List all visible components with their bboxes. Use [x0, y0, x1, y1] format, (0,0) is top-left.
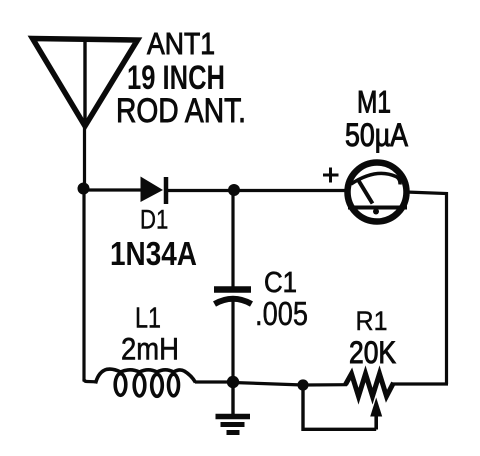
- svg-text:D1: D1: [140, 204, 168, 234]
- meter M1 polarity +: [323, 168, 339, 183]
- node C (bottom junction dot): [227, 376, 239, 388]
- svg-text:M1: M1: [357, 84, 391, 120]
- meter M1: [348, 163, 408, 222]
- wire capacitor to bottom node: [231, 298, 234, 384]
- wire node C down to ground: [231, 382, 234, 415]
- inductor L1: [96, 369, 196, 396]
- svg-text:ANT1: ANT1: [147, 27, 215, 61]
- wire node D to resistor: [303, 383, 347, 386]
- wire node B down to capacitor: [231, 190, 234, 288]
- svg-text:50µA: 50µA: [345, 117, 409, 153]
- wire bottom-left corner to inductor: [84, 379, 97, 382]
- svg-text:20K: 20K: [349, 334, 396, 370]
- wire top: node A to diode anode: [83, 188, 141, 191]
- capacitor C1: [214, 290, 252, 305]
- node B (junction dot): [228, 184, 240, 196]
- wire node C to node D: [233, 383, 303, 386]
- wire wiper to node D: [303, 385, 376, 429]
- svg-text:1N34A: 1N34A: [110, 236, 197, 273]
- svg-text:.005: .005: [255, 295, 308, 332]
- potentiometer wiper arrow: [370, 398, 382, 430]
- svg-text:R1: R1: [356, 306, 388, 336]
- wire left vertical: [82, 188, 85, 382]
- node A (antenna junction dot): [78, 183, 90, 195]
- resistor R1 (potentiometer): [346, 374, 394, 396]
- wire antenna stem: [83, 124, 86, 190]
- wire node B to meter: [234, 189, 348, 192]
- svg-text:L1: L1: [135, 302, 161, 334]
- svg-text:ROD ANT.: ROD ANT.: [116, 92, 246, 130]
- wire resistor to bottom-right corner: [392, 382, 448, 385]
- wire diode cathode to node B: [166, 189, 236, 192]
- wire inductor to node C: [195, 380, 233, 383]
- diode D1: [141, 177, 167, 205]
- ground: [216, 417, 251, 433]
- svg-text:2mH: 2mH: [121, 331, 179, 367]
- node D (junction dot): [297, 379, 308, 390]
- wire meter to top-right corner: [406, 192, 447, 384]
- antenna ANT1: [33, 39, 138, 127]
